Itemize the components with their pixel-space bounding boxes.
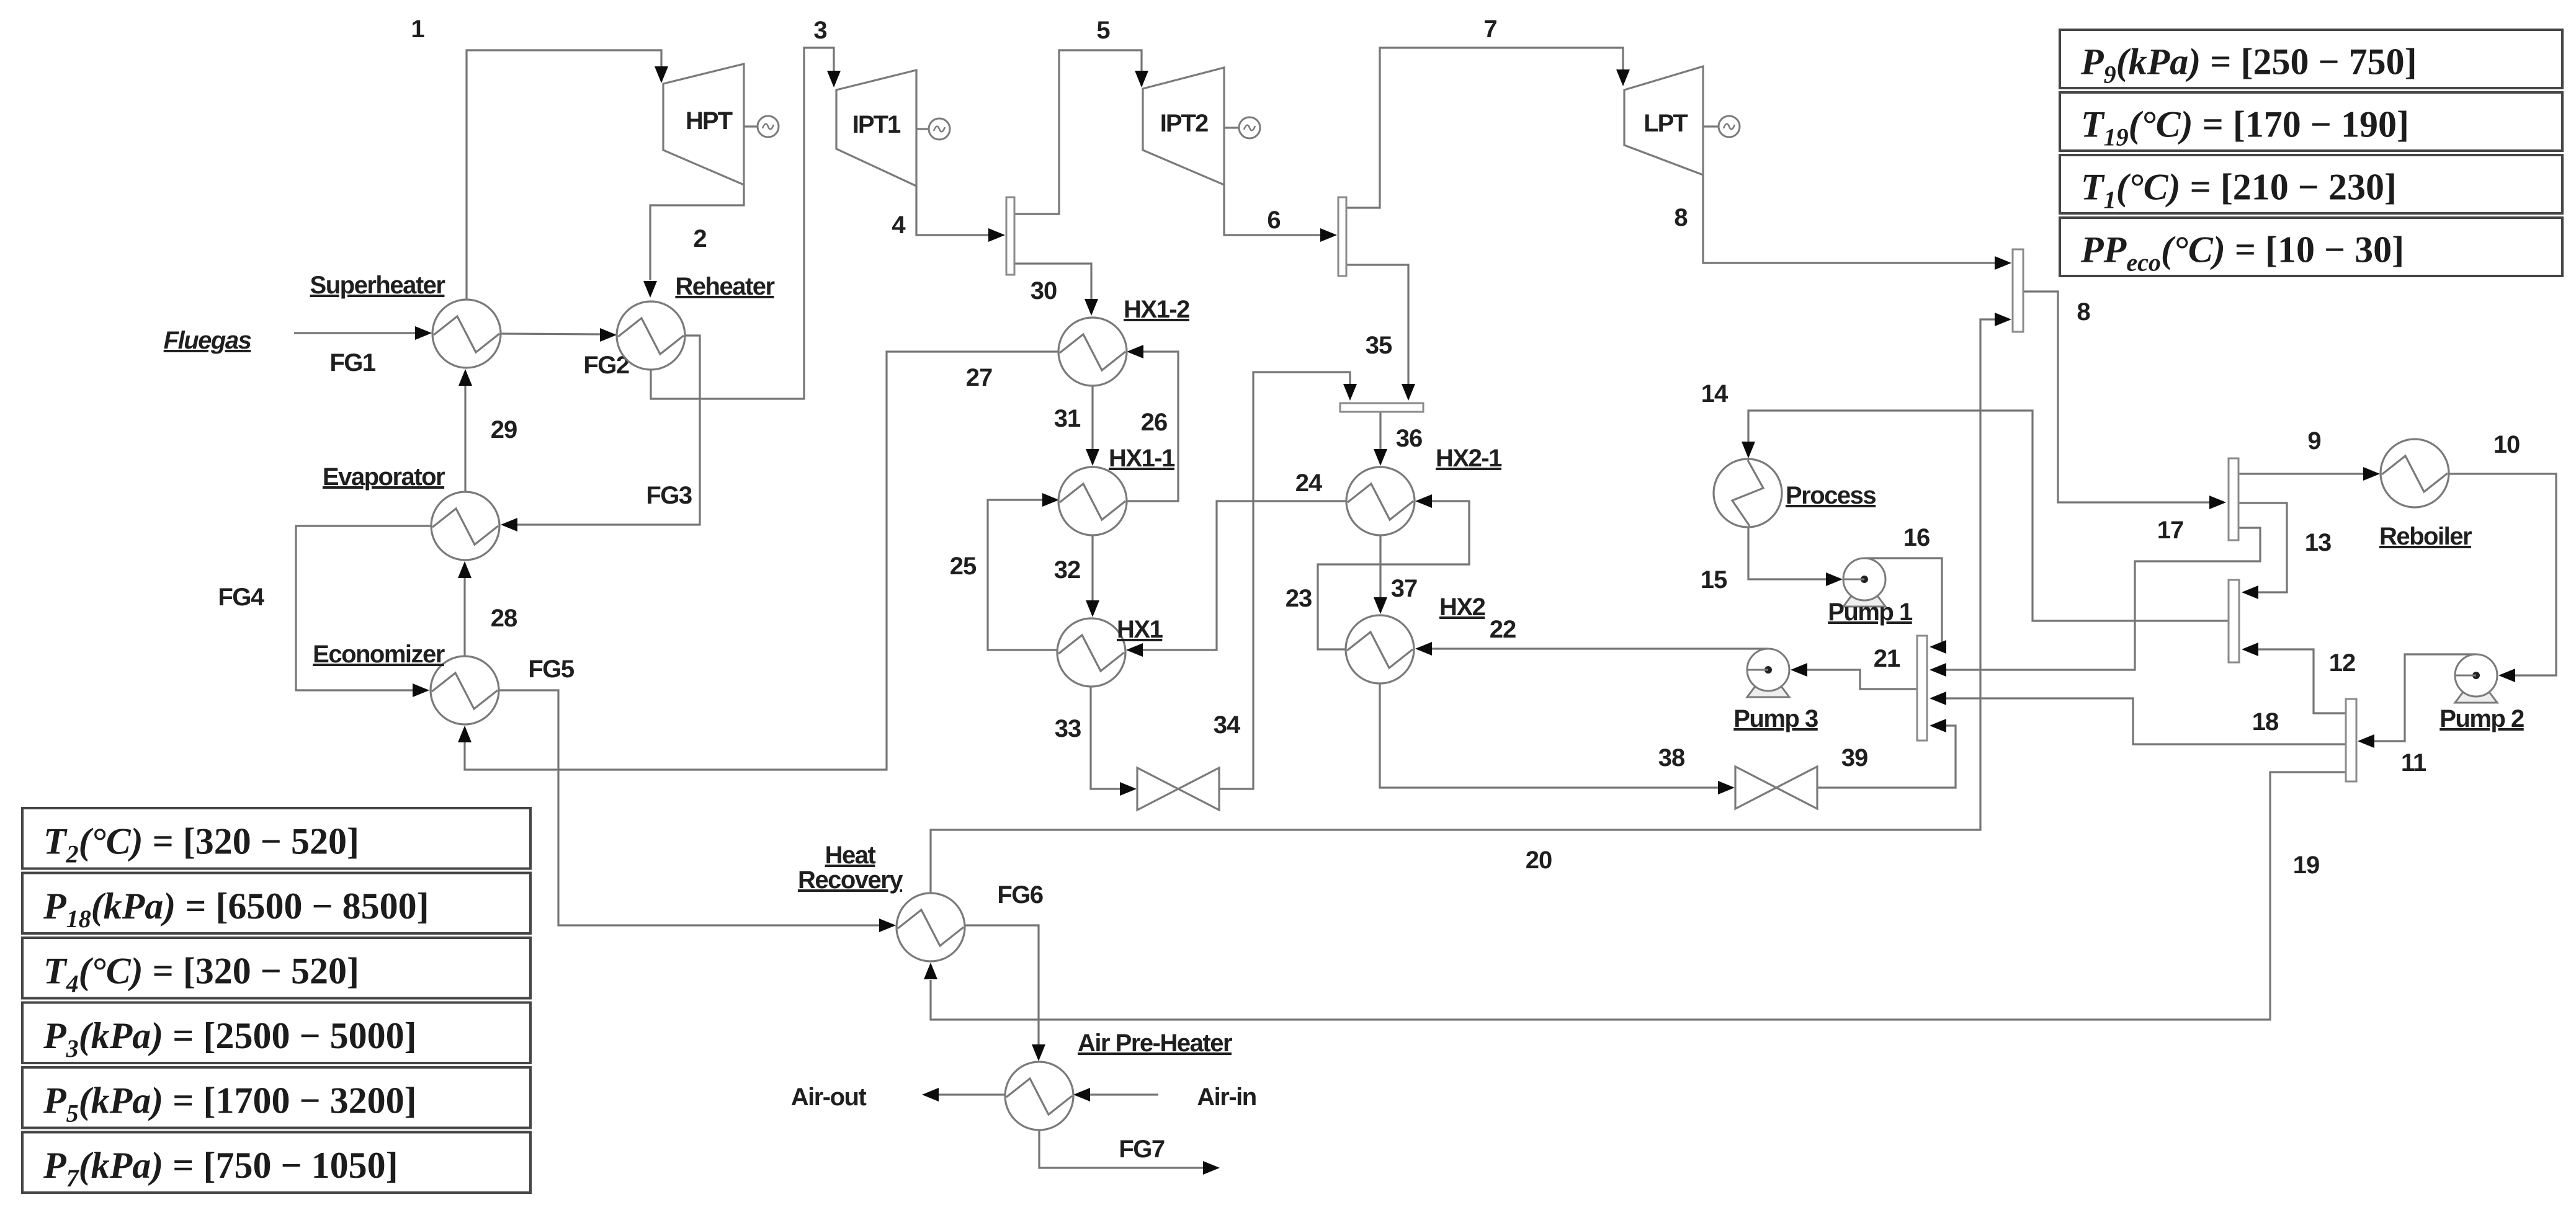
splitter S9 (streams 9/13/17): [2229, 458, 2238, 540]
pump Pump 1: [1828, 558, 1913, 626]
wire stream 30 (S1 to HX1-2): [1014, 264, 1098, 316]
mixer M8 (stream 8 + 20): [2013, 249, 2023, 332]
svg-text:FG3: FG3: [646, 482, 692, 509]
table left parameter box row T2: [22, 808, 530, 869]
heat exchanger HX2: [1346, 594, 1485, 683]
svg-text:FG1: FG1: [329, 349, 376, 376]
svg-text:11: 11: [2401, 749, 2426, 776]
wire FG6 (Heat Recovery to Air Pre-Heater): [964, 881, 1045, 1061]
wire stream 27 (HX1-2 to Economizer): [458, 352, 1059, 770]
svg-text:Air-out: Air-out: [791, 1083, 867, 1111]
pump Pump 2: [2440, 654, 2524, 732]
svg-text:15: 15: [1701, 566, 1727, 594]
svg-text:3: 3: [813, 17, 826, 44]
wire stream 19 (S18 to Heat Recovery): [924, 772, 2346, 1020]
wire stream 28 (Economizer to Evaporator): [458, 561, 517, 656]
svg-text:HX2-1: HX2-1: [1436, 445, 1502, 472]
svg-text:Recovery: Recovery: [798, 866, 903, 894]
wire Air-out (from Air Pre-Heater): [791, 1083, 1006, 1111]
wire stream 34 (V1 to mixer M36): [1214, 372, 1357, 789]
wire stream 38 (HX2 to valve V2): [1380, 683, 1735, 794]
svg-text:18: 18: [2252, 708, 2279, 736]
splitter S1 (after IPT1): [1006, 197, 1014, 275]
svg-text:34: 34: [1214, 711, 1241, 739]
svg-text:IPT2: IPT2: [1160, 110, 1208, 137]
svg-text:HX1-2: HX1-2: [1124, 296, 1189, 323]
wire stream 17 (S9 to M21): [1930, 517, 2260, 677]
svg-text:FG4: FG4: [218, 584, 265, 611]
svg-text:14: 14: [1701, 380, 1729, 407]
table left parameter box row P3: [22, 1003, 530, 1064]
wire stream 6 (IPT2 to splitter S2): [1224, 185, 1337, 242]
wire stream 20 (Heat Recovery to M8): [931, 313, 2011, 893]
svg-text:32: 32: [1054, 556, 1081, 584]
svg-text:FG5: FG5: [528, 656, 575, 683]
svg-text:Reheater: Reheater: [675, 273, 774, 300]
svg-text:22: 22: [1490, 616, 1516, 643]
svg-text:13: 13: [2305, 529, 2332, 556]
wire stream 26 (HX1-1 to HX1-2): [1126, 345, 1178, 501]
pump Pump 3: [1733, 649, 1818, 732]
wire stream 13 (S9 to S13): [2238, 503, 2331, 599]
mixer M21 (to Pump 3): [1917, 636, 1927, 741]
svg-text:HX1: HX1: [1117, 616, 1163, 643]
svg-text:30: 30: [1031, 277, 1057, 305]
svg-text:17: 17: [2157, 517, 2184, 544]
svg-text:29: 29: [491, 416, 517, 443]
table left parameter box row P7: [22, 1132, 530, 1193]
svg-text:8: 8: [1674, 204, 1688, 231]
svg-text:26: 26: [1141, 409, 1168, 436]
svg-text:35: 35: [1366, 332, 1392, 359]
wire stream 18 (S18 to M21): [1930, 692, 2346, 744]
svg-text:FG6: FG6: [997, 881, 1043, 909]
wire stream 16 (Pump 1 to mixer M21): [1864, 524, 1946, 654]
svg-text:FG7: FG7: [1119, 1136, 1165, 1163]
svg-text:HX1-1: HX1-1: [1109, 445, 1175, 472]
mixer S13 (streams 13+12 to 14): [2229, 580, 2239, 662]
heat exchanger HX1-1: [1058, 445, 1175, 535]
svg-text:P7(kPa) = [750 − 1050]: P7(kPa) = [750 − 1050]: [43, 1145, 398, 1192]
wire stream 8 (M8 to splitter S9): [2023, 291, 2226, 509]
wire stream 1 (Superheater to HPT): [411, 16, 668, 300]
wire FG5 (Economizer to Heat Recovery): [499, 656, 896, 932]
svg-text:23: 23: [1286, 585, 1312, 612]
wire FG2 (Superheater to Reheater): [501, 328, 629, 379]
svg-text:27: 27: [966, 364, 993, 391]
svg-text:Pump 1: Pump 1: [1828, 598, 1913, 626]
wire stream 5 (S1 to IPT2): [1014, 17, 1148, 214]
turbine IPT1: [836, 70, 916, 186]
svg-text:24: 24: [1295, 469, 1323, 497]
svg-text:P5(kPa) = [1700 − 3200]: P5(kPa) = [1700 − 3200]: [43, 1080, 417, 1127]
wire stream 7 (S2 to LPT): [1346, 16, 1630, 208]
svg-text:Fluegas: Fluegas: [164, 327, 251, 354]
wire stream 37 (HX2-1 to HX2): [1374, 535, 1417, 614]
svg-text:39: 39: [1841, 744, 1868, 772]
svg-text:8: 8: [2077, 298, 2090, 326]
generator of HPT: [744, 116, 779, 137]
wire FG7 (Air Pre-Heater out): [1039, 1129, 1220, 1175]
svg-text:T2(°C) = [320 − 520]: T2(°C) = [320 − 520]: [43, 821, 359, 868]
turbine LPT: [1624, 66, 1703, 175]
heat exchanger Reheater: [617, 273, 775, 370]
svg-text:T4(°C) = [320 − 520]: T4(°C) = [320 − 520]: [43, 950, 359, 997]
svg-text:Air Pre-Heater: Air Pre-Heater: [1078, 1030, 1232, 1057]
svg-text:HX2: HX2: [1439, 594, 1485, 621]
svg-text:Process: Process: [1786, 482, 1876, 509]
wire stream 4 (IPT1 to splitter S1): [892, 186, 1005, 242]
wire stream 29 (Evaporator to Superheater): [458, 369, 517, 492]
svg-text:Superheater: Superheater: [310, 272, 445, 299]
svg-text:1: 1: [411, 16, 424, 43]
wire stream 35 (S2 to M36): [1346, 265, 1415, 401]
splitter S18 (streams 12/18/19): [2346, 699, 2356, 781]
svg-text:Air-in: Air-in: [1197, 1083, 1256, 1111]
heat exchanger Economizer: [313, 641, 499, 724]
wire stream 14 (S13 to Process): [1701, 380, 2229, 621]
splitter S2 (after IPT2): [1338, 197, 1346, 276]
svg-text:28: 28: [491, 605, 517, 632]
svg-text:12: 12: [2329, 649, 2356, 677]
wire stream 39 (V2 to M21): [1817, 719, 1956, 788]
heat exchanger HX2-1: [1346, 445, 1502, 535]
svg-text:38: 38: [1658, 744, 1685, 772]
wire stream 2 (HPT to Reheater): [643, 185, 744, 298]
wire stream 15 (Process to Pump 1): [1701, 527, 1843, 594]
svg-text:9: 9: [2307, 427, 2320, 455]
mixer M36 (streams 34+35 to 36): [1340, 403, 1423, 412]
svg-text:Heat: Heat: [825, 842, 876, 869]
svg-text:31: 31: [1054, 405, 1081, 432]
svg-text:Economizer: Economizer: [313, 641, 445, 668]
turbine HPT: [663, 64, 744, 185]
svg-text:19: 19: [2293, 852, 2320, 879]
wire FG4 (Evaporator to Economizer): [218, 526, 431, 697]
svg-text:Evaporator: Evaporator: [323, 463, 445, 491]
svg-text:P9(kPa) = [250 − 750]: P9(kPa) = [250 − 750]: [2080, 42, 2417, 89]
wire stream 8 (LPT to mixer M8): [1674, 175, 2011, 270]
table right parameter box row T19: [2060, 92, 2562, 151]
svg-text:36: 36: [1396, 425, 1423, 452]
turbine IPT2: [1143, 68, 1224, 185]
table left parameter box row P18: [22, 873, 530, 934]
svg-text:T1(°C) = [210 − 230]: T1(°C) = [210 − 230]: [2081, 167, 2397, 214]
svg-text:10: 10: [2493, 431, 2520, 458]
table left parameter box row P5: [22, 1067, 530, 1128]
heat exchanger Evaporator: [323, 463, 499, 560]
generator of LPT: [1703, 116, 1740, 137]
svg-text:20: 20: [1526, 847, 1552, 874]
table right parameter box row PPeco: [2060, 218, 2562, 277]
svg-text:33: 33: [1055, 715, 1081, 742]
wire stream 36 (M36 to HX2-1): [1374, 412, 1422, 466]
wire stream 25 (HX1 to HX1-1): [950, 493, 1059, 650]
heat exchanger Reboiler: [2379, 439, 2472, 550]
svg-text:21: 21: [1874, 645, 1900, 672]
heat exchanger HX1: [1057, 616, 1163, 687]
wire stream 21 (M21 to Pump 3): [1791, 645, 1917, 689]
valve V1 (stream 33-34): [1137, 768, 1219, 810]
svg-text:5: 5: [1096, 17, 1110, 44]
svg-text:HPT: HPT: [686, 107, 733, 135]
wire FG3 (Reheater to Evaporator): [501, 336, 700, 532]
table left parameter box row T4: [22, 938, 530, 999]
heat exchanger HX1-2: [1058, 296, 1189, 386]
wire stream 23 (HX2 to HX2-1): [1286, 494, 1469, 649]
table right parameter box row P9: [2060, 30, 2562, 89]
table right parameter box row T1: [2060, 155, 2562, 214]
wire stream 3 (Reheater to IPT1): [651, 17, 841, 399]
svg-text:P3(kPa) = [2500 − 5000]: P3(kPa) = [2500 − 5000]: [43, 1015, 417, 1062]
wire stream 22 (Pump 3 to HX2): [1415, 616, 1768, 656]
wire stream 12 (S18 to S13): [2242, 643, 2355, 713]
svg-text:37: 37: [1391, 575, 1418, 602]
wire stream 32 (HX1-1 to HX1): [1054, 535, 1099, 617]
wire stream 31 (HX1-2 to HX1-1): [1054, 386, 1099, 466]
svg-text:T19(°C) = [170 − 190]: T19(°C) = [170 − 190]: [2081, 104, 2409, 151]
wire Air-in (into Air Pre-Heater): [1073, 1083, 1256, 1111]
heat exchanger Superheater: [310, 272, 501, 368]
svg-text:25: 25: [950, 553, 977, 580]
wire stream 9 (S9 to Reboiler): [2238, 427, 2380, 481]
heat exchanger Heat Recovery: [798, 842, 965, 961]
svg-text:IPT1: IPT1: [852, 111, 901, 138]
wire stream 24 (HX2-1 to HX1): [1126, 469, 1347, 657]
svg-text:16: 16: [1903, 524, 1930, 551]
svg-text:LPT: LPT: [1644, 110, 1688, 137]
svg-text:7: 7: [1483, 16, 1496, 43]
wire stream 11 (Pump 2 to splitter S18): [2358, 654, 2476, 776]
wire stream 10 (Reboiler to Pump 2): [2448, 431, 2556, 682]
svg-text:2: 2: [693, 225, 706, 252]
svg-text:Pump 2: Pump 2: [2440, 705, 2524, 732]
svg-text:P18(kPa) = [6500 − 8500]: P18(kPa) = [6500 − 8500]: [43, 886, 429, 933]
generator of IPT1: [916, 118, 950, 140]
heat exchanger Process (process heater): [1714, 459, 1876, 527]
generator of IPT2: [1224, 117, 1260, 138]
svg-text:6: 6: [1267, 207, 1280, 234]
wire Fluegas FG1 into Superheater: [164, 326, 432, 376]
valve V2 (stream 38-39): [1735, 767, 1817, 809]
heat exchanger Air Pre-Heater: [1005, 1030, 1232, 1130]
svg-text:4: 4: [892, 211, 906, 239]
svg-text:Reboiler: Reboiler: [2379, 523, 2472, 550]
wire stream 33 (HX1 to valve V1): [1055, 687, 1137, 796]
svg-text:Pump 3: Pump 3: [1733, 705, 1818, 732]
